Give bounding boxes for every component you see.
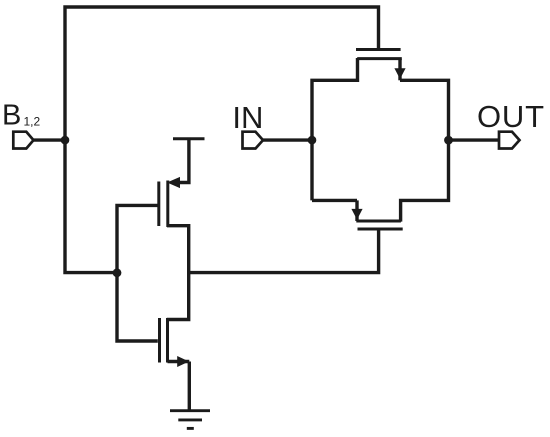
wire: IN port to transmission gate left node [263,138,312,141]
transistor NMOS of inverter [160,318,190,367]
ground [170,411,210,429]
node: inverter input junction [113,268,122,277]
svg-text:B: B [2,100,21,132]
wire: transmission gate left branch and top-left rail [312,58,358,200]
wire: transmission gate bottom-left rail [312,199,357,202]
wire: inverter input gate tie (PMOS and NMOS gates) [117,205,158,341]
wire: NMOS source to ground [188,362,191,410]
wire: transmission gate top-right rail, right branch, bottom-right rail [400,80,449,221]
node: IN junction [308,136,317,145]
wire: B port to junction [33,138,66,141]
wire: OUT node to port [449,138,500,141]
node: OUT junction [444,136,453,145]
label B 1,2 [2,100,41,132]
transistor top of transmission gate (gate on top) [356,50,406,81]
transistor PMOS of inverter [159,138,189,228]
wire: inverter output to transmission-gate bottom gate [189,229,379,273]
svg-text:IN: IN [232,100,263,135]
svg-text:1,2: 1,2 [24,114,41,128]
transistor bottom of transmission gate (gate on bottom) [351,200,402,229]
supply bar (VDD) [173,137,205,140]
wire: B net vertical + top run to transmission-gate top gate [65,7,379,273]
wire: inverter output node (PMOS drain to NMOS drain) [167,226,189,320]
node: B junction [61,136,70,145]
port IN (input pin symbol) [243,132,264,149]
svg-text:OUT: OUT [477,99,545,134]
port OUT (output pin symbol) [499,132,520,149]
port B (input pin symbol) [13,132,33,149]
